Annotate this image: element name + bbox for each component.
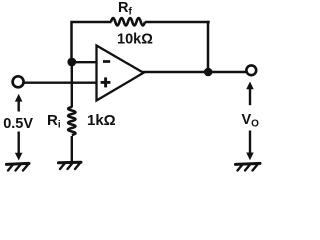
wire node A down to Ri: [71, 62, 73, 108]
wire Ri to ground: [71, 136, 73, 162]
output terminal circle: [246, 65, 256, 75]
op-amp U1 triangle: [97, 46, 144, 101]
svg-text:1kΩ: 1kΩ: [87, 112, 116, 129]
op-amp non-inverting input plus sign: [101, 77, 111, 87]
svg-text:10kΩ: 10kΩ: [117, 32, 153, 48]
node A junction dot (inverting input node): [67, 58, 76, 67]
0.5V source arrow lower: [15, 132, 23, 161]
0.5V source arrow upper: [15, 94, 23, 112]
op-amp inverting input minus sign: [103, 60, 110, 63]
wire node A to inverting input: [72, 61, 97, 63]
node junction dot on output: [204, 68, 213, 77]
wire top rail left segment: [70, 21, 111, 24]
input terminal circle: [13, 76, 24, 87]
Vo arrow upper: [246, 82, 254, 106]
wire feedback top-left vertical (node A to top rail): [70, 22, 73, 62]
Vo arrow lower: [246, 131, 254, 161]
ground (input side): [7, 163, 30, 170]
svg-text:0.5V: 0.5V: [3, 116, 33, 132]
resistor Ri: [68, 107, 75, 135]
ground (below Ri): [59, 162, 82, 169]
wire feedback right vertical: [207, 21, 210, 72]
ground (output side): [236, 163, 261, 170]
wire input to non-inverting input: [25, 81, 97, 83]
wire top rail right segment: [145, 21, 210, 24]
resistor Rf: [111, 18, 145, 25]
wire op-amp output: [143, 71, 247, 73]
